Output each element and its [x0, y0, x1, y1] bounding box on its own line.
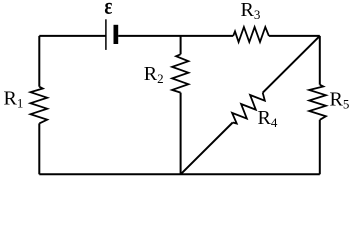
svg-text:ε: ε [104, 0, 112, 19]
